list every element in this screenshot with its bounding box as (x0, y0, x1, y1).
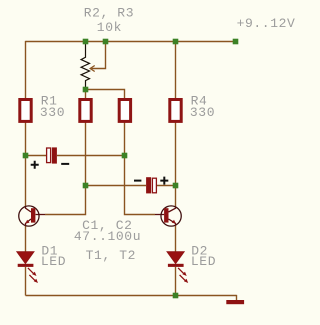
wiper arrowhead (90, 66, 95, 72)
transistor T2 emitter diagonal (169, 219, 176, 226)
resistor R2 (mid-left rect) (80, 100, 91, 122)
svg-text:LED: LED (41, 254, 66, 269)
C2 plus sign (160, 177, 168, 185)
wire bottom rail (26, 295, 237, 297)
LED D2 triangle (167, 252, 184, 264)
ground bar symbol (226, 300, 244, 304)
node C2 left junction (83, 183, 89, 189)
svg-text:330: 330 (40, 105, 65, 120)
wire node B to RMR top (86, 90, 125, 99)
LED D1 triangle (17, 252, 34, 264)
node bottom rail D2 (173, 293, 179, 299)
node C1 left junction (23, 153, 29, 159)
node top rail R4 (173, 39, 179, 45)
node zigzag bottom (83, 87, 89, 93)
wire T2 emitter to D2 anode (175, 226, 177, 252)
wire left rail upper (corner to R1 top) (25, 41, 27, 99)
transistor T2 emitter arrowhead (172, 220, 176, 224)
resistor R4 (170, 100, 181, 122)
wire C2 row right (157, 185, 176, 187)
wire top rail +V (26, 41, 236, 43)
wire T2 base pin stub (155, 214, 164, 216)
wire RMR bottom to T2 base elbow (125, 122, 156, 214)
transistor T1 collector diagonal (26, 207, 32, 212)
LED D2 light arrow 2 (180, 275, 186, 281)
C1 plus sign (31, 161, 39, 169)
wire left rail R1 bottom to T1 collector (25, 122, 27, 206)
svg-text:T1, T2: T1, T2 (86, 248, 136, 263)
capacitor C1 plus plate (outline) (47, 148, 51, 163)
wire C1 row right (57, 155, 125, 157)
LED D2 cathode bar (168, 264, 184, 267)
wire T1 emitter to D1 anode (25, 226, 27, 252)
svg-text:+9..12V: +9..12V (237, 16, 296, 31)
resistor R1 (20, 100, 31, 122)
wire R4 bottom to T2 collector (175, 122, 177, 206)
transistor T2 circle (161, 206, 181, 226)
svg-text:10k: 10k (97, 20, 122, 35)
svg-text:LED: LED (191, 254, 216, 269)
LED D2 light arrow 1 (178, 268, 184, 274)
resistor R3 (mid-right rect) (119, 100, 130, 122)
node C2 right junction (173, 183, 179, 189)
transistor T1 base bar (31, 208, 35, 222)
C2 minus sign (134, 180, 141, 182)
LED D1 cathode bar (18, 264, 34, 267)
transistor T1 circle (19, 206, 39, 226)
wire wiper drop from top rail (92, 42, 106, 69)
transistor T2 collector diagonal (169, 207, 176, 212)
capacitor C1 minus plate (filled) (52, 147, 57, 163)
wire C2 row left (86, 185, 147, 187)
transistor T1 emitter diagonal (26, 219, 32, 226)
wire right rail top to R4 (175, 42, 177, 99)
resistor R2/R3 zigzag symbol (81, 42, 89, 90)
svg-text:330: 330 (190, 105, 215, 120)
wire node B square to RML top (85, 90, 87, 99)
wire C1 row left (26, 155, 47, 157)
wire ground stub (236, 295, 238, 301)
transistor T2 base bar (164, 208, 168, 222)
transistor T1 emitter arrowhead (25, 220, 29, 224)
node top rail B (83, 39, 89, 45)
wire D1 cathode to bottom rail corner (25, 267, 27, 296)
wire D2 cathode to bottom rail (175, 267, 177, 296)
wire T1 base pin stub (36, 214, 45, 216)
LED D1 light arrow 1 (28, 268, 34, 274)
capacitor C2 plus plate (outline) (152, 178, 156, 193)
node top rail supply end (233, 39, 239, 45)
node top rail wiper (103, 39, 109, 45)
svg-text:R2, R3: R2, R3 (84, 6, 134, 21)
capacitor C2 minus plate (filled) (146, 177, 151, 193)
C1 minus sign (61, 163, 69, 165)
LED D1 light arrow 2 (29, 275, 35, 281)
node C1 right junction (122, 153, 128, 159)
svg-text:47..100u: 47..100u (74, 229, 141, 244)
wire RML bottom to T1 base elbow (45, 122, 86, 214)
